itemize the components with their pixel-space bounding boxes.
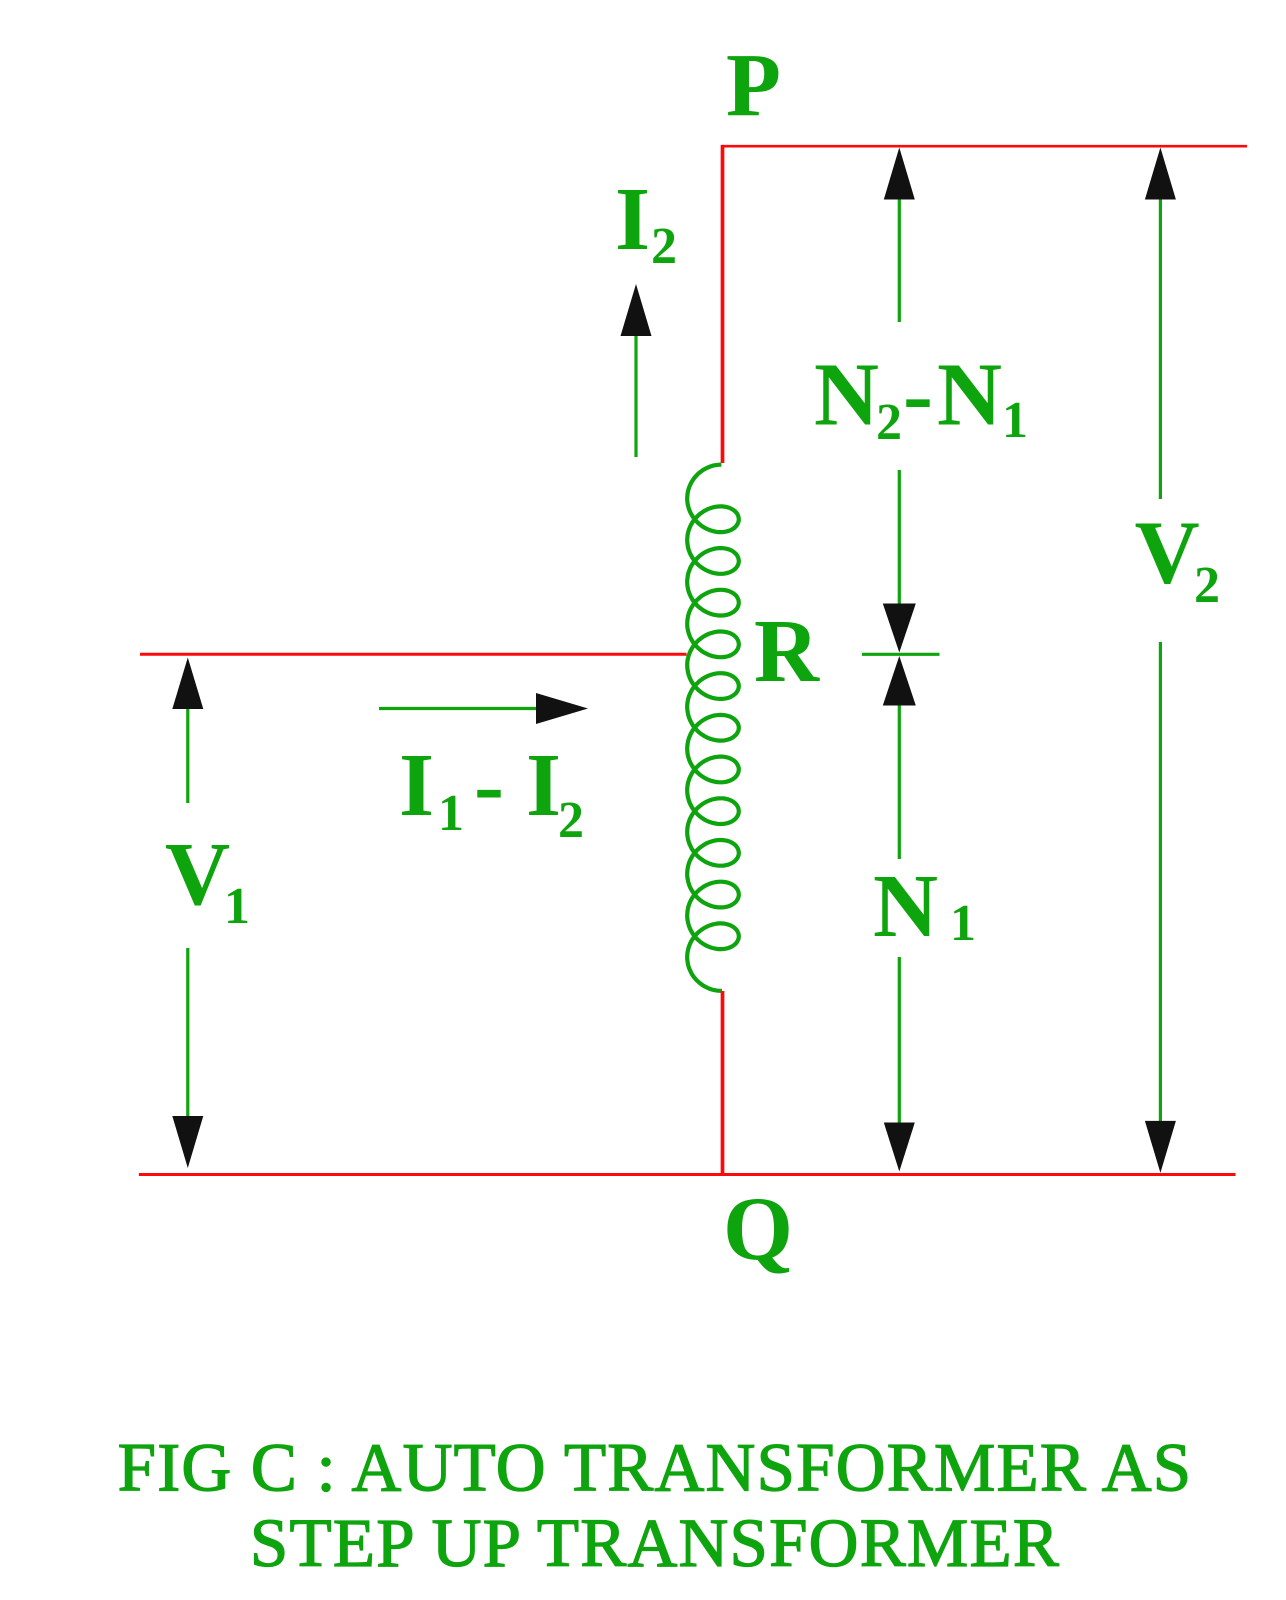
svg-text:P: P (726, 36, 781, 135)
wire bottom horizontal (139, 1173, 1236, 1176)
wire vertical from P to coil (721, 145, 725, 463)
svg-text:I: I (615, 170, 650, 269)
wire middle horizontal tap to R (140, 653, 687, 656)
svg-text:-: - (474, 736, 504, 835)
V1 measurement arrow (172, 658, 203, 710)
svg-text:2: 2 (651, 218, 677, 275)
svg-text:2: 2 (1194, 557, 1220, 614)
current arrow I1-I2 (379, 707, 536, 710)
svg-text:STEP UP TRANSFORMER: STEP UP TRANSFORMER (250, 1505, 1060, 1581)
svg-text:1: 1 (950, 895, 976, 952)
svg-text:Q: Q (723, 1180, 793, 1279)
svg-text:V: V (1135, 504, 1200, 603)
wire top horizontal (722, 145, 1247, 148)
N1 measurement arrow lower (883, 656, 916, 706)
wire vertical from coil to Q (721, 991, 725, 1176)
svg-text:2: 2 (558, 792, 584, 849)
tick at R level (862, 653, 940, 656)
svg-text:R: R (754, 602, 820, 701)
svg-text:I: I (399, 736, 434, 835)
svg-text:1: 1 (438, 785, 464, 842)
current arrow I2 (634, 336, 637, 457)
svg-text:N: N (937, 346, 1002, 445)
svg-text:N: N (814, 346, 879, 445)
svg-text:V: V (165, 825, 230, 924)
inductor coil R winding (687, 465, 739, 991)
svg-text:1: 1 (1002, 392, 1028, 449)
svg-text:FIG C : AUTO TRANSFORMER AS: FIG C : AUTO TRANSFORMER AS (118, 1430, 1193, 1506)
N2-N1 measurement arrow upper (884, 148, 915, 200)
svg-text:1: 1 (224, 878, 250, 935)
V2 measurement arrow (1145, 148, 1176, 200)
svg-text:N: N (873, 857, 938, 956)
svg-text:2: 2 (876, 394, 902, 451)
svg-text:I: I (526, 736, 561, 835)
svg-text:-: - (903, 346, 933, 445)
